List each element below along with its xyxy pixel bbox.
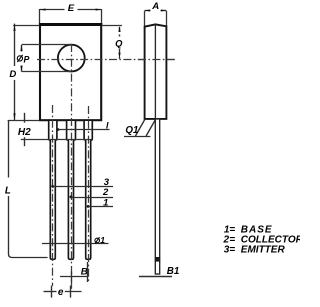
svg-text:EMITTER: EMITTER [241,244,286,255]
svg-text:=: = [229,244,235,255]
svg-text:Q: Q [115,37,123,48]
svg-text:B: B [81,266,88,277]
svg-text:E: E [68,3,75,14]
svg-text:H2: H2 [18,127,31,138]
svg-text:Q1: Q1 [125,125,138,136]
svg-text:D: D [9,69,16,80]
svg-text:1: 1 [100,235,105,245]
svg-text:B1: B1 [167,266,180,277]
svg-text:1: 1 [103,197,108,208]
svg-text:A: A [151,1,159,12]
svg-text:e: e [58,287,64,298]
svg-text:P: P [24,55,30,65]
svg-text:L: L [5,185,11,196]
